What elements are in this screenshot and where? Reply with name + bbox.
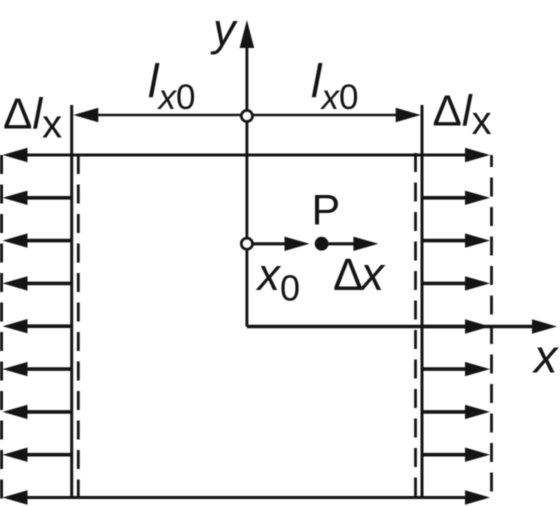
x-axis	[247, 319, 557, 333]
svg-text:x: x	[532, 329, 559, 382]
svg-text:y: y	[210, 4, 238, 55]
left traction arrow row 5	[3, 319, 72, 333]
arrow delta-x from P	[322, 237, 379, 251]
node: open circle x0 on y-axis	[241, 238, 252, 249]
left traction arrow row 2	[3, 191, 72, 205]
wire: bottom edge of plate with outward traction arrows both ends	[22, 496, 468, 499]
wire: far-right dashed deformed edge	[490, 155, 493, 498]
right traction arrow row 4	[422, 276, 490, 290]
right traction arrow row 6	[422, 362, 490, 376]
left traction arrow row 6	[3, 362, 72, 376]
node: point P (filled dot)	[315, 237, 329, 251]
wire: inner-left dashed line	[77, 155, 80, 498]
arrow from x0 to P	[253, 237, 310, 251]
wire: top edge of plate with outward traction arrows both ends	[22, 154, 468, 157]
left traction arrow row 8	[3, 448, 72, 462]
right traction arrow row 7	[422, 405, 490, 419]
y-axis	[240, 20, 255, 327]
wire: inner-right dashed line	[414, 153, 417, 498]
dimension line l_x0 (arrows both ends)	[73, 108, 420, 122]
wire: left solid edge of plate	[70, 105, 73, 499]
right traction arrow row 8	[422, 448, 490, 462]
wire: right solid edge of plate	[421, 105, 424, 499]
wire: far-left dashed deformed edge	[0, 155, 3, 500]
left traction arrow row 3	[3, 233, 72, 247]
right traction arrow row 3	[422, 233, 490, 247]
left traction arrow row 4	[3, 276, 72, 290]
left traction arrow row 7	[3, 405, 72, 419]
right traction arrow row 5 on x-axis	[422, 319, 490, 333]
svg-text:P: P	[312, 186, 341, 234]
right traction arrow row 2	[422, 191, 490, 205]
svg-text:Δx: Δx	[333, 247, 386, 300]
node: open circle on dimension line at y-axis	[241, 110, 252, 121]
